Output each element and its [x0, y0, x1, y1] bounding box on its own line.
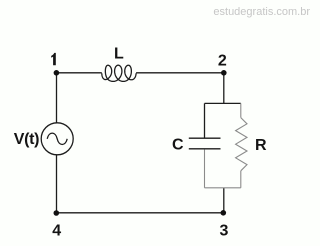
wire node2 down to parallel junction — [223, 73, 225, 104]
svg-text:C: C — [172, 136, 184, 153]
voltage source V(t) circle — [41, 123, 73, 155]
top bar of parallel branch — [205, 102, 241, 104]
node 1 label — [51, 53, 56, 65]
svg-text:L: L — [114, 45, 124, 62]
resistor R zigzag — [236, 118, 247, 171]
svg-text:2: 2 — [218, 53, 227, 70]
node 4 junction dot — [54, 210, 60, 216]
inductor L1 coil — [102, 65, 136, 81]
capacitor C bottom plate — [189, 148, 221, 150]
svg-text:R: R — [255, 137, 267, 154]
wire node1 to inductor — [56, 72, 102, 74]
node 1 junction dot — [54, 70, 60, 76]
bottom bar of parallel branch — [205, 187, 241, 189]
node 2 junction dot — [221, 70, 227, 76]
capacitor branch bottom wire — [204, 149, 206, 187]
svg-text:V(t): V(t) — [14, 131, 39, 148]
svg-text:3: 3 — [220, 223, 229, 240]
wire bar down to node3 — [223, 188, 225, 213]
resistor branch bottom wire — [240, 171, 242, 188]
svg-text:estudegratis.com.br: estudegratis.com.br — [213, 6, 310, 18]
svg-text:4: 4 — [52, 223, 61, 240]
wire node1 down to source — [56, 73, 58, 123]
resistor branch top wire — [240, 103, 242, 117]
wire inductor to node2 — [136, 72, 224, 74]
wire source to node4 — [56, 155, 58, 213]
capacitor branch top wire — [204, 103, 206, 137]
sine wave inside source — [47, 133, 67, 144]
node 3 junction dot — [221, 210, 227, 216]
capacitor C top plate — [189, 137, 221, 139]
bottom wire node4 to node3 — [56, 212, 223, 214]
